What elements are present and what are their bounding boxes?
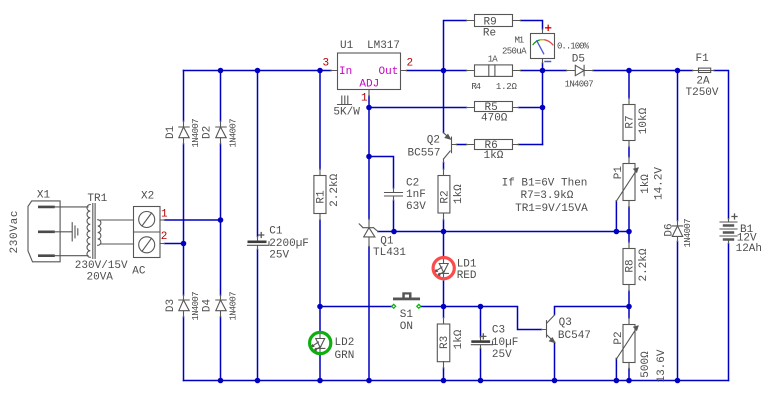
- transistor Q2 BC557: [444, 133, 457, 163]
- svg-text:1N4007: 1N4007: [683, 219, 693, 248]
- svg-text:LD2: LD2: [335, 337, 355, 349]
- svg-text:1N4007: 1N4007: [565, 80, 594, 90]
- connector X2 terminal block: [134, 207, 165, 258]
- wire S1 to C3 and Q3 base: [421, 307, 542, 330]
- svg-text:1kΩ: 1kΩ: [453, 184, 465, 204]
- svg-text:In: In: [339, 66, 352, 78]
- svg-text:1N4007: 1N4007: [191, 292, 201, 321]
- svg-text:Q3: Q3: [559, 317, 572, 329]
- wire R9 branch left: [444, 21, 467, 71]
- LED LD1 red ring: [433, 258, 454, 279]
- svg-text:1kΩ: 1kΩ: [640, 174, 652, 194]
- svg-text:M1: M1: [515, 36, 525, 46]
- wire C1 column x=257: [257, 71, 259, 381]
- wire top rail left from bridge to U1 In: [184, 70, 332, 72]
- wire Q3 collector up and to divider: [555, 307, 630, 315]
- diode D6: [672, 221, 682, 242]
- potentiometer P2: [616, 318, 638, 369]
- svg-text:1N4007: 1N4007: [229, 119, 239, 148]
- svg-text:1: 1: [361, 93, 368, 105]
- ground (earth) symbol: [72, 223, 78, 241]
- diode D5: [567, 65, 594, 75]
- svg-text:TR1: TR1: [87, 193, 107, 205]
- svg-text:1kΩ: 1kΩ: [453, 329, 465, 349]
- diode D3: [179, 295, 189, 317]
- wire R2 bottom to LD1: [443, 220, 445, 318]
- battery B1: [720, 214, 737, 244]
- resistor R3: [437, 318, 450, 369]
- svg-text:10kΩ: 10kΩ: [638, 107, 650, 134]
- wire R6 right to out node: [519, 144, 543, 146]
- wire ADJ node down to C2 branch and Q1: [368, 108, 370, 220]
- capacitor C2: [385, 188, 403, 201]
- svg-text:2200µF: 2200µF: [269, 238, 309, 250]
- svg-text:470Ω: 470Ω: [481, 113, 508, 125]
- wire divider chain x=628.5: [628, 71, 630, 381]
- svg-text:R7: R7: [624, 115, 636, 128]
- wire R9 to M1 top: [521, 21, 543, 30]
- svg-text:2.2kΩ: 2.2kΩ: [329, 173, 341, 206]
- svg-text:500Ω: 500Ω: [640, 351, 652, 378]
- TL431 Q1: [359, 219, 378, 247]
- svg-text:D5: D5: [572, 54, 585, 66]
- wire P2 wiper: [615, 359, 617, 381]
- node C2 branch dot: [366, 154, 372, 160]
- node rail y70 dots: [218, 68, 224, 74]
- wire ADJ row to R5: [369, 107, 467, 109]
- svg-text:Out: Out: [379, 66, 399, 78]
- svg-text:1kΩ: 1kΩ: [484, 150, 504, 162]
- svg-text:ON: ON: [400, 321, 413, 333]
- svg-text:S1: S1: [400, 309, 414, 321]
- svg-text:1N4007: 1N4007: [229, 292, 239, 321]
- wire bottom ground rail: [184, 380, 729, 382]
- wire S1 row left: [320, 306, 392, 308]
- svg-text:C2: C2: [406, 177, 419, 189]
- svg-text:1N4007: 1N4007: [191, 119, 201, 148]
- svg-text:230Vac: 230Vac: [9, 211, 21, 254]
- wire R5 right to out node: [519, 107, 543, 109]
- svg-text:ADJ: ADJ: [359, 79, 379, 91]
- wire C2 branch: [369, 157, 394, 232]
- svg-text:TR1=9V/15VA: TR1=9V/15VA: [515, 203, 588, 215]
- resistor R9: [467, 15, 521, 27]
- svg-text:R1: R1: [315, 190, 327, 204]
- resistor R4 (fusible): [467, 65, 521, 77]
- svg-text:LM317: LM317: [367, 40, 400, 52]
- svg-text:F1: F1: [696, 53, 710, 65]
- svg-text:C3: C3: [492, 324, 505, 336]
- svg-text:2A: 2A: [696, 76, 710, 88]
- node ref row dots: [391, 229, 397, 235]
- fuse F1: [693, 68, 715, 72]
- capacitor C3: [471, 334, 492, 349]
- svg-text:25V: 25V: [492, 349, 512, 361]
- svg-text:R4: R4: [471, 82, 481, 92]
- wire Q2 emitter column: [443, 71, 445, 133]
- wire M1 bottom: [542, 63, 544, 71]
- wire R3 bottom: [443, 368, 445, 381]
- resistor R2: [438, 169, 450, 220]
- svg-text:1.2Ω: 1.2Ω: [496, 82, 518, 92]
- svg-text:2: 2: [407, 58, 414, 70]
- meter minus mark: [545, 61, 551, 63]
- heatsink 5K/W: [338, 96, 352, 105]
- svg-text:D4: D4: [202, 299, 214, 313]
- wire Q2 collector to R2: [443, 163, 445, 170]
- wire P1 wiper: [615, 201, 617, 232]
- svg-text:P2: P2: [613, 331, 625, 344]
- svg-text:U1: U1: [340, 40, 354, 52]
- svg-text:D1: D1: [165, 125, 177, 139]
- wire R6 left to Q2 base: [457, 144, 467, 146]
- svg-text:T250V: T250V: [686, 87, 719, 99]
- svg-text:TL431: TL431: [373, 247, 406, 259]
- svg-text:P1: P1: [613, 166, 625, 180]
- svg-text:Q1: Q1: [380, 236, 394, 248]
- svg-text:12Ah: 12Ah: [736, 243, 762, 255]
- diode D1: [179, 121, 189, 144]
- svg-text:250uA: 250uA: [502, 47, 527, 57]
- transistor Q3 BC547: [542, 315, 555, 343]
- svg-text:BC557: BC557: [408, 148, 441, 160]
- diode D4: [216, 295, 226, 317]
- svg-text:Q2: Q2: [427, 134, 440, 146]
- wire bridge column D1/D3 x=183: [183, 71, 185, 381]
- svg-text:BC547: BC547: [558, 330, 591, 342]
- svg-text:5K/W: 5K/W: [333, 107, 360, 119]
- connector X1 mains plug: [28, 201, 88, 262]
- switch S1 pushbutton: [392, 292, 421, 308]
- wire reference row y=231: [378, 231, 629, 233]
- svg-text:R7=3.9kΩ: R7=3.9kΩ: [521, 190, 574, 202]
- svg-text:LD1: LD1: [457, 259, 477, 271]
- svg-text:13.6V: 13.6V: [656, 349, 668, 382]
- wire X2 pin1 to bridge: [165, 219, 221, 221]
- svg-text:20VA: 20VA: [87, 271, 114, 283]
- diode D2: [216, 121, 226, 144]
- LED LD2 symbol: [310, 332, 325, 354]
- svg-text:AC: AC: [132, 265, 146, 277]
- transformer TR1: [87, 204, 134, 259]
- resistor R1: [314, 169, 326, 220]
- node S1 row dots: [317, 304, 323, 310]
- svg-text:RED: RED: [457, 270, 477, 282]
- meter M1 scale arc and needle: [533, 40, 553, 54]
- svg-text:If B1=6V Then: If B1=6V Then: [502, 178, 588, 190]
- svg-text:X1: X1: [37, 189, 51, 201]
- svg-text:D3: D3: [165, 299, 177, 312]
- svg-text:D2: D2: [202, 126, 214, 139]
- svg-text:D6: D6: [664, 223, 676, 236]
- LED LD1 symbol: [434, 257, 449, 281]
- wire bridge column D2/D4 x=220: [220, 71, 222, 381]
- svg-text:1nF: 1nF: [406, 189, 426, 201]
- svg-text:1A: 1A: [488, 54, 499, 64]
- svg-text:3: 3: [323, 58, 330, 70]
- wire C3 column: [480, 307, 482, 381]
- wire Q3 emitter down: [554, 343, 556, 381]
- wire Q1 anode down to ground rail: [368, 247, 370, 381]
- wire U1 out rail to F1 and B1: [407, 71, 729, 219]
- wire ADJ pin down: [368, 96, 370, 108]
- LED LD2 green ring: [310, 332, 331, 353]
- svg-text:2.2kΩ: 2.2kΩ: [638, 248, 650, 281]
- svg-text:R8: R8: [624, 259, 636, 272]
- svg-text:14.2V: 14.2V: [654, 167, 666, 200]
- resistor R8: [623, 242, 635, 291]
- meter plus mark: [546, 25, 551, 30]
- wire R1/LD2 column x=319.5: [319, 71, 321, 381]
- node X2 pin1 dot: [218, 217, 224, 223]
- op-amp U1 LM317 regulator box: [331, 53, 407, 96]
- svg-text:2: 2: [161, 231, 168, 243]
- resistor R6: [467, 140, 519, 150]
- capacitor C1: [248, 233, 270, 250]
- svg-text:Re: Re: [483, 28, 496, 40]
- meter M1: [531, 29, 555, 63]
- wire D6 column: [677, 71, 679, 381]
- svg-text:63V: 63V: [406, 201, 426, 213]
- wire out node vertical x=542: [542, 71, 544, 145]
- svg-text:R2: R2: [439, 190, 451, 203]
- resistor R7: [623, 98, 635, 147]
- svg-text:10µF: 10µF: [492, 337, 518, 349]
- node X2 pin2 dot: [181, 241, 187, 247]
- wire X2 pin2 to bridge: [165, 243, 184, 245]
- svg-text:0..100%: 0..100%: [557, 41, 590, 51]
- svg-text:GRN: GRN: [335, 350, 355, 362]
- svg-text:25V: 25V: [269, 250, 289, 262]
- node ADJ dot: [366, 105, 372, 111]
- resistor R5: [467, 102, 519, 112]
- wire B1 bottom: [728, 244, 730, 381]
- svg-text:C1: C1: [269, 226, 283, 238]
- svg-text:R3: R3: [439, 336, 451, 349]
- svg-text:1: 1: [161, 209, 168, 221]
- node ground rail dots: [218, 378, 224, 384]
- node out/R5 dot: [540, 105, 546, 111]
- svg-text:X2: X2: [141, 190, 154, 202]
- potentiometer P1: [616, 157, 638, 207]
